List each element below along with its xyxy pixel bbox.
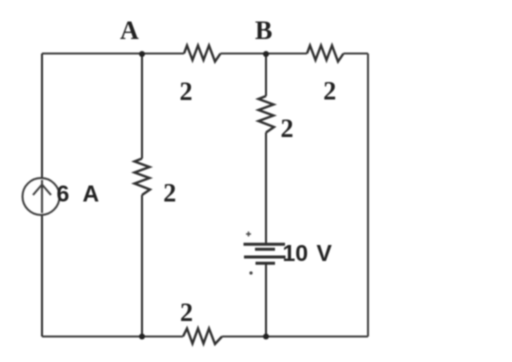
battery V1 plate long top	[244, 243, 286, 246]
svg-text:2: 2	[180, 298, 193, 327]
node B junction dot	[263, 51, 269, 57]
wire bottom-right segment	[222, 336, 368, 338]
wire bottom-left segment	[42, 336, 183, 338]
wire top-left segment	[42, 53, 184, 55]
svg-text:B: B	[255, 16, 272, 45]
bottom junction dot left	[139, 334, 145, 340]
resistor R5 2ohm (branch B)	[259, 96, 275, 133]
resistor R2 2ohm (top right)	[307, 46, 344, 62]
wire top-middle segment	[221, 53, 308, 55]
wire left vertical	[41, 54, 43, 337]
battery V1 plate short bottom	[256, 262, 276, 265]
battery plus marker	[246, 232, 251, 237]
node A junction dot	[139, 51, 145, 57]
battery minus marker	[249, 271, 252, 274]
current source arrow shaft	[41, 180, 43, 213]
wire branch A upper	[141, 54, 143, 159]
current source I1 6A circle	[23, 178, 60, 215]
svg-text:2: 2	[323, 77, 336, 106]
current source arrow head	[33, 185, 51, 196]
wire top-right segment	[344, 53, 369, 55]
wire right vertical	[367, 54, 369, 337]
svg-text:10: 10	[283, 240, 309, 266]
svg-text:V: V	[317, 240, 333, 266]
svg-text:2: 2	[180, 77, 193, 106]
svg-text:2: 2	[163, 179, 176, 208]
resistor R4 2ohm (branch A)	[135, 159, 151, 196]
battery V1 plate short second	[255, 248, 275, 251]
wire branch B middle	[265, 133, 267, 245]
svg-text:A: A	[120, 16, 139, 45]
resistor R1 2ohm (top, between A and B)	[184, 46, 221, 62]
svg-text:A: A	[83, 181, 100, 207]
wire branch A lower	[141, 195, 143, 337]
resistor R3 2ohm (bottom)	[183, 329, 222, 345]
battery V1 plate long third	[244, 256, 286, 259]
wire branch B upper	[265, 54, 267, 97]
svg-text:6: 6	[57, 181, 70, 207]
svg-text:2: 2	[281, 114, 294, 143]
bottom junction dot right	[263, 334, 269, 340]
wire branch B lower	[265, 264, 267, 337]
